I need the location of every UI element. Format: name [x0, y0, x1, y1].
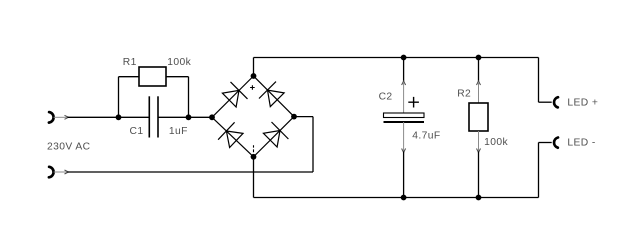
diode D1 triangle (left to top): [222, 90, 239, 107]
wire C2 top net: [403, 58, 405, 83]
terminal LED-: [554, 138, 558, 148]
wire top rail: [254, 57, 539, 59]
wire LED- riser: [538, 143, 540, 198]
wire R2 bottom net: [478, 152, 480, 198]
wire bridge top stub: [253, 58, 255, 77]
svg-text:100k: 100k: [484, 137, 508, 148]
terminal LED+: [554, 97, 558, 107]
wire LED+ drop: [538, 58, 540, 103]
pin arrow on AC line 1: [65, 115, 69, 119]
diode D2 triangle (right to top): [268, 90, 285, 107]
diode D3 cathode bar: [218, 122, 235, 139]
wire LED+ horizontal: [539, 101, 552, 103]
junction dot bridge bottom node: [251, 154, 257, 160]
pin stub C2 top: [403, 82, 405, 113]
resistor R2 body: [469, 103, 488, 131]
wire pin stub from X1-1: [54, 116, 68, 118]
wire AC line 1 to C1 left plate: [68, 116, 150, 118]
junction dot R2 top rail: [476, 55, 482, 61]
junction dot bridge right node: [291, 114, 297, 120]
diode D4 triangle (bottom to right): [263, 131, 280, 148]
capacitor C2 negative plate: [384, 121, 425, 123]
wire R1 right lead: [166, 76, 189, 78]
junction dot (right of C1): [186, 114, 192, 120]
pin arrow C2 bottom: [402, 149, 406, 153]
wire R1 branch left vertical: [118, 77, 120, 118]
svg-text:100k: 100k: [167, 57, 191, 68]
junction dot R2 bottom rail: [476, 195, 482, 201]
pin arrow C2 top: [402, 81, 406, 85]
svg-text:LED +: LED +: [567, 97, 598, 108]
wire R1 left lead: [119, 76, 140, 78]
resistor R1 body: [139, 67, 166, 86]
pin stub C2 bottom: [403, 122, 405, 152]
bridge plus mark: [250, 85, 255, 90]
wire bottom rail: [254, 197, 539, 199]
junction dot bridge left node: [209, 114, 215, 120]
wire bridge bottom stub: [253, 157, 255, 198]
junction dot C2 top rail: [401, 55, 407, 61]
svg-text:4.7uF: 4.7uF: [412, 131, 440, 142]
bridge minus mark: [253, 145, 255, 152]
svg-text:LED -: LED -: [567, 138, 595, 149]
junction dot bridge top node: [251, 73, 257, 79]
diode D1 cathode bar: [231, 82, 248, 99]
bridge B1 edge left-top: [212, 76, 254, 117]
bridge B1 edge right-top: [254, 76, 295, 117]
capacitor C1 right plate: [157, 96, 159, 137]
junction dot (left of C1): [116, 114, 122, 120]
pin arrow R2 bottom: [477, 149, 481, 153]
capacitor C2 positive plate (box): [384, 113, 425, 118]
diode D2 cathode bar: [259, 82, 276, 99]
wire C2 bottom net: [403, 152, 405, 198]
svg-text:230V AC: 230V AC: [47, 142, 91, 153]
terminal X1-2 (230V AC bottom): [49, 167, 54, 178]
junction dot C2 bottom rail: [401, 195, 407, 201]
terminal X1-1 (230V AC top): [49, 112, 54, 123]
wire R2 top net: [478, 58, 480, 83]
svg-text:R1: R1: [123, 57, 137, 68]
pin arrow on AC line 2: [65, 170, 69, 174]
svg-text:C2: C2: [379, 92, 393, 103]
wire riser to bridge right node: [294, 116, 313, 118]
wire R1 branch right vertical: [188, 77, 190, 118]
wire AC line 2: [68, 171, 314, 173]
bridge B1 edge bottom-left: [212, 117, 254, 157]
capacitor C1 left plate: [148, 96, 150, 137]
svg-text:1uF: 1uF: [169, 126, 188, 137]
C2 polarity plus: [408, 97, 419, 108]
wire pin stub from X1-2: [54, 171, 68, 173]
wire C1 right plate to bridge left node: [158, 116, 212, 118]
pin stub R2 bottom: [478, 131, 480, 152]
diode D3 triangle (bottom to left): [226, 131, 243, 148]
svg-text:R2: R2: [457, 89, 471, 100]
wire LED- horizontal: [539, 142, 552, 144]
svg-text:C1: C1: [130, 126, 144, 137]
bridge B1 edge bottom-right: [254, 117, 295, 157]
pin stub R2 top: [478, 82, 480, 103]
wire AC line 2 vertical riser: [312, 117, 314, 172]
pin arrow R2 top: [477, 81, 481, 85]
diode D4 cathode bar: [272, 122, 289, 139]
